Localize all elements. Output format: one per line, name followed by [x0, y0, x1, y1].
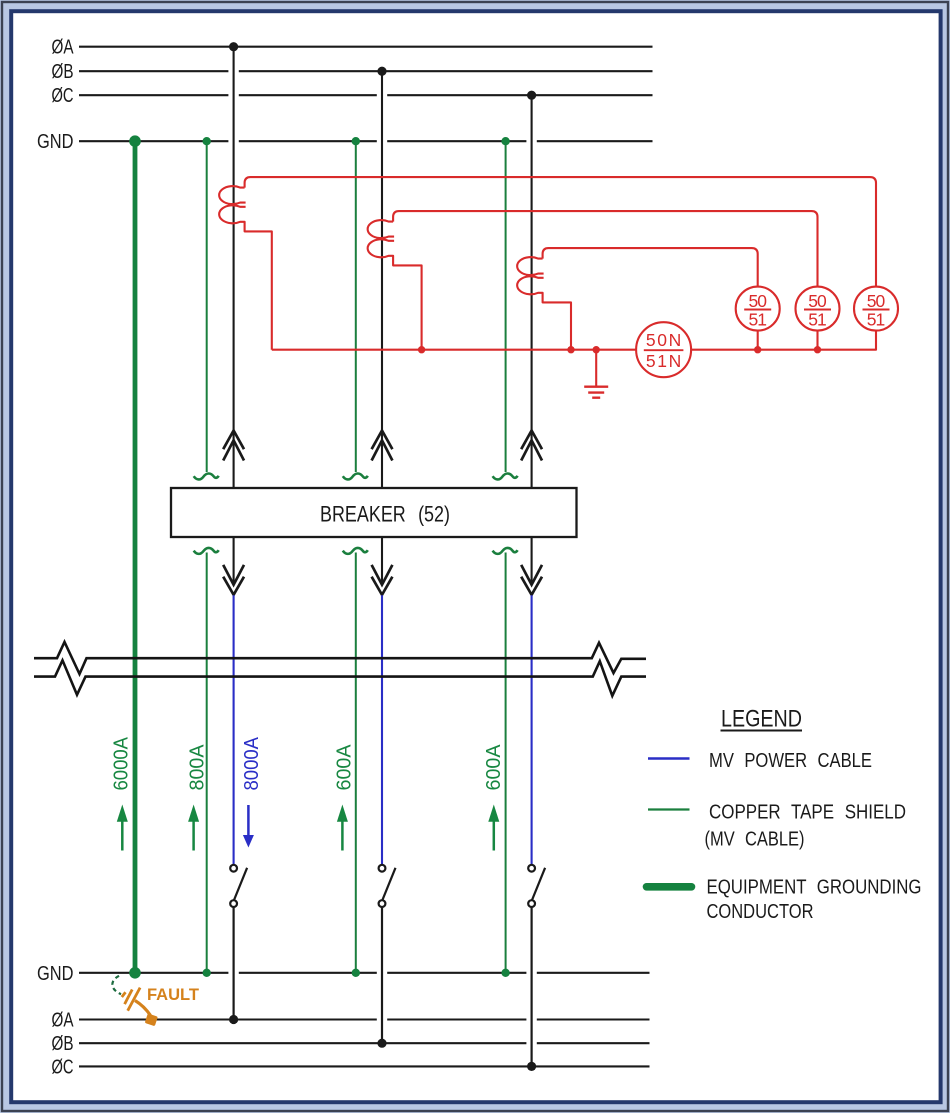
arrow up 6000A	[117, 805, 128, 851]
svg-text:LEGEND: LEGEND	[721, 706, 802, 733]
copper tape shield B (upper)	[355, 141, 357, 472]
node phase C bottom	[527, 1062, 536, 1071]
svg-text:ØC: ØC	[52, 1056, 74, 1078]
fault terminal square	[145, 1013, 158, 1026]
ground bus (bottom)	[79, 972, 650, 974]
shield termination squiggle B (below breaker)	[343, 548, 368, 554]
label relay 50N/51N	[646, 330, 681, 371]
svg-text:51: 51	[808, 309, 827, 329]
copper tape shield C (lower)	[505, 553, 507, 973]
svg-text:50: 50	[808, 291, 827, 311]
svg-text:50: 50	[867, 291, 886, 311]
node shield C bottom	[501, 969, 509, 977]
CT B secondary lead to relay 50/51 (middle)	[393, 211, 817, 287]
switch phase C	[528, 865, 545, 1067]
copper tape shield A (upper)	[206, 141, 208, 472]
node relay B stub	[814, 346, 821, 353]
fault slash 1	[122, 992, 126, 997]
svg-text:GND: GND	[37, 131, 74, 153]
arrow up 800A	[188, 805, 199, 851]
node phase A top	[229, 42, 238, 51]
breaker 52 box	[171, 488, 577, 537]
flow arrow down phase C	[521, 565, 542, 595]
CT A secondary lead to relay 50/51 (right)	[245, 177, 876, 287]
svg-text:MV POWER CABLE: MV POWER CABLE	[709, 750, 872, 772]
flow arrow up phase C	[521, 431, 542, 461]
svg-text:EQUIPMENT GROUNDING: EQUIPMENT GROUNDING	[707, 877, 922, 899]
node shield B bottom	[352, 969, 360, 977]
relay 50N/51N circle	[636, 322, 691, 377]
copper tape shield C (upper)	[505, 141, 507, 472]
relay 50/51 phase C circle	[736, 287, 780, 331]
ground bus (top)	[79, 140, 653, 142]
shield termination squiggle A (below breaker)	[194, 548, 219, 554]
svg-text:ØA: ØA	[52, 1010, 74, 1032]
svg-text:(MV CABLE): (MV CABLE)	[705, 829, 805, 851]
CT secondary common bus	[272, 331, 876, 350]
node grounding conductor top	[129, 135, 141, 147]
switch phase A	[230, 865, 247, 1020]
flow arrow up phase B	[372, 431, 393, 461]
shield termination squiggle A (above breaker)	[194, 473, 219, 479]
svg-text:BREAKER (52): BREAKER (52)	[320, 502, 450, 527]
svg-text:600A: 600A	[483, 744, 505, 791]
svg-text:800A: 800A	[187, 744, 209, 791]
svg-text:ØB: ØB	[52, 61, 74, 83]
legend title underline	[721, 730, 803, 732]
svg-text:ØA: ØA	[52, 37, 74, 59]
relay 50/51 phase A circle	[854, 287, 898, 331]
junction dots on CT bus	[418, 346, 821, 353]
label relay A 50/51	[867, 291, 886, 330]
svg-text:6000A: 6000A	[111, 736, 133, 790]
MV cable phase B (blue)	[381, 595, 383, 864]
MV cable phase A (blue)	[233, 595, 235, 864]
phase bus A (top)	[79, 46, 653, 48]
wire phase B below breaker	[381, 537, 383, 584]
wall line lower with breaks	[34, 660, 646, 696]
node CT-B to bus	[418, 346, 425, 353]
fraction bar relay C	[744, 309, 771, 311]
wall line upper with breaks	[34, 642, 646, 674]
fault bolt	[128, 988, 140, 1011]
node shield C top	[501, 137, 509, 145]
switch phase B	[379, 865, 396, 1043]
svg-text:51: 51	[867, 309, 886, 329]
relay 50/51 middle stub	[816, 331, 818, 350]
label relay B 50/51	[808, 291, 827, 330]
arrow up 600A (C)	[488, 805, 499, 851]
node CT-C to bus	[567, 346, 574, 353]
svg-text:FAULT: FAULT	[147, 985, 200, 1004]
relay labels	[646, 291, 886, 371]
fraction bar relay B	[804, 309, 831, 311]
wire phase A drop	[233, 47, 235, 488]
MV cable phase C (blue)	[531, 595, 533, 864]
wire phase A below breaker	[233, 537, 235, 584]
CT A winding	[219, 186, 272, 350]
svg-text:8000A: 8000A	[241, 736, 263, 790]
fault path dashed arc	[112, 976, 121, 994]
svg-text:51: 51	[748, 309, 767, 329]
node phase C top	[527, 91, 536, 100]
svg-text:51N: 51N	[646, 351, 681, 371]
fraction bar relay A	[863, 309, 890, 311]
svg-text:ØC: ØC	[52, 85, 74, 107]
shield termination squiggle C (above breaker)	[493, 473, 518, 479]
legend swatch equipment grounding conductor	[647, 883, 692, 891]
CT C secondary lead to relay 50/51 (left)	[543, 248, 758, 287]
ground stub	[595, 350, 597, 387]
node ground tap	[593, 346, 600, 353]
copper tape shield A (lower)	[206, 553, 208, 973]
fault slash 2	[125, 990, 133, 1005]
node phase A bottom	[229, 1015, 238, 1024]
arrow up 600A (B)	[337, 805, 348, 851]
CT B winding	[368, 220, 422, 350]
node shield B top	[352, 137, 360, 145]
arrow down 8000A	[243, 805, 254, 848]
label relay C 50/51	[748, 291, 767, 330]
flow arrow up phase A	[223, 431, 244, 461]
wire phase C drop	[531, 95, 533, 488]
flow arrow down phase B	[372, 565, 393, 595]
shield termination squiggle B (above breaker)	[343, 473, 368, 479]
node grounding conductor bottom	[129, 967, 141, 979]
node phase B top	[377, 67, 386, 76]
phase bus B (top)	[79, 70, 653, 72]
CT C winding	[517, 257, 571, 350]
fault tail	[135, 1001, 151, 1016]
legend swatch copper tape shield	[648, 808, 690, 810]
svg-text:CONDUCTOR: CONDUCTOR	[707, 901, 814, 923]
phase bus A (bottom)	[79, 1018, 650, 1020]
fraction bar relay N	[644, 349, 684, 351]
node shield A bottom	[203, 969, 211, 977]
node relay C stub	[754, 346, 761, 353]
svg-text:ØB: ØB	[52, 1033, 74, 1055]
flow arrow down phase A	[223, 565, 244, 595]
copper tape shield B (lower)	[355, 553, 357, 973]
relay 50/51 phase B circle	[796, 287, 840, 331]
equipment grounding conductor (thick green)	[133, 141, 138, 973]
svg-text:COPPER TAPE SHIELD: COPPER TAPE SHIELD	[709, 802, 906, 824]
node phase B bottom	[377, 1039, 386, 1048]
legend swatch MV power cable	[648, 757, 690, 759]
relay 50/51 left stub	[757, 331, 759, 350]
svg-text:50N: 50N	[646, 330, 681, 350]
wire phase C below breaker	[531, 537, 533, 584]
phase bus B (bottom)	[79, 1042, 650, 1044]
node shield A top	[203, 137, 211, 145]
ground symbol	[584, 387, 608, 398]
shield termination squiggle C (below breaker)	[493, 548, 518, 554]
svg-text:600A: 600A	[334, 744, 356, 791]
phase bus C (top)	[79, 94, 653, 96]
phase bus C (bottom)	[79, 1065, 650, 1067]
svg-text:50: 50	[748, 291, 767, 311]
wire phase B drop	[381, 71, 383, 488]
svg-text:GND: GND	[37, 963, 74, 985]
